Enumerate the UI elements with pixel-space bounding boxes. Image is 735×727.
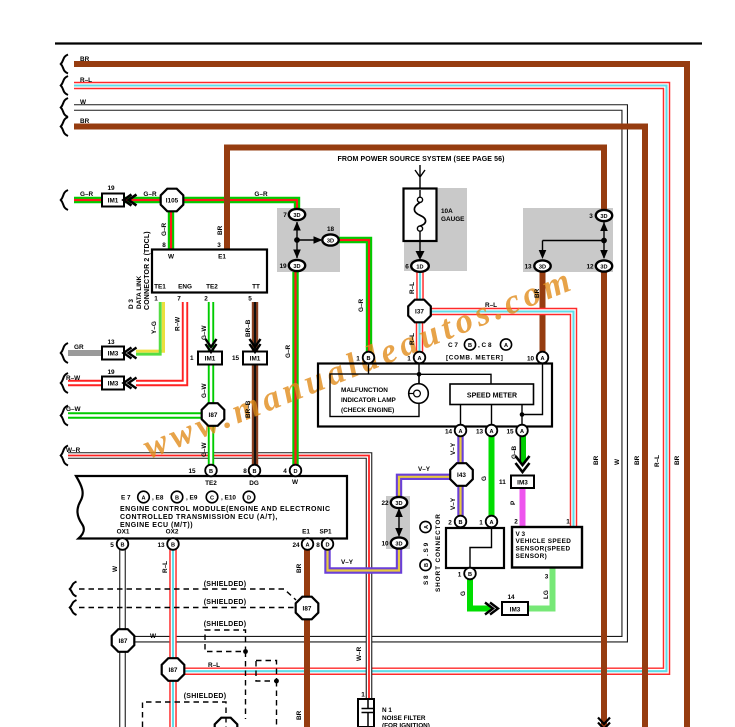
svg-text:(SHIELDED): (SHIELDED) bbox=[204, 621, 247, 628]
svg-text:TE1: TE1 bbox=[154, 284, 166, 291]
wire BR-B TT down to ECU DG bbox=[254, 302, 256, 470]
wire BR 13D3 to comb meter 10A bbox=[540, 271, 546, 353]
svg-text:DATA LINK: DATA LINK bbox=[136, 275, 143, 309]
connector IM3 pin11 (G-B to P) bbox=[499, 456, 534, 488]
svg-text:13: 13 bbox=[107, 339, 115, 346]
svg-text:3D: 3D bbox=[293, 213, 300, 219]
svg-text:ENGINE CONTROL MODULE(ENGINE A: ENGINE CONTROL MODULE(ENGINE AND ELECTRO… bbox=[120, 506, 331, 513]
svg-text:BR: BR bbox=[296, 710, 303, 720]
svg-text:19: 19 bbox=[279, 263, 287, 270]
svg-text:3D: 3D bbox=[327, 238, 334, 244]
svg-text:I87: I87 bbox=[169, 667, 178, 674]
svg-text:10: 10 bbox=[381, 541, 389, 548]
shield drain 2 bbox=[276, 681, 278, 727]
svg-text:BR: BR bbox=[217, 225, 224, 235]
svg-text:C: C bbox=[210, 495, 214, 501]
3D oval pin13 bbox=[524, 260, 550, 271]
octagon I87 BR bbox=[296, 597, 319, 620]
connector IM1 pin1 (G-W) bbox=[190, 339, 222, 365]
wire G-W brace to I87 bbox=[68, 415, 213, 417]
shield junction dots bbox=[243, 649, 248, 654]
svg-text:13: 13 bbox=[157, 542, 165, 549]
wire BR ECU E1 down bbox=[304, 549, 310, 727]
svg-text:BR–B: BR–B bbox=[245, 319, 252, 337]
octagon I105 bbox=[161, 189, 184, 212]
svg-text:(FOR IGNITION): (FOR IGNITION) bbox=[382, 723, 430, 727]
svg-text:V–Y: V–Y bbox=[450, 442, 457, 455]
svg-text:B: B bbox=[458, 520, 462, 526]
arrows in left 3D block bbox=[293, 222, 322, 259]
svg-text:B: B bbox=[424, 563, 430, 567]
wire G-B comb15 to IM3 11 bbox=[521, 436, 526, 463]
comb meter top pins bbox=[356, 352, 548, 364]
svg-text:D: D bbox=[247, 495, 251, 501]
svg-text:10A: 10A bbox=[441, 208, 453, 215]
octagon I87 W bbox=[112, 629, 135, 652]
svg-text:2: 2 bbox=[448, 520, 452, 527]
ECU top pin circles bbox=[205, 465, 301, 477]
wire G short connector 1B to IM3 14 bbox=[470, 578, 491, 609]
svg-text:7: 7 bbox=[177, 296, 181, 303]
svg-text:BR: BR bbox=[80, 56, 90, 63]
svg-text:G: G bbox=[460, 591, 467, 596]
3D oval pin3 bbox=[589, 210, 612, 221]
svg-text:G–R: G–R bbox=[161, 222, 168, 236]
svg-text:8: 8 bbox=[162, 242, 166, 249]
svg-text:ENGINE ECU (M/T)): ENGINE ECU (M/T)) bbox=[120, 522, 193, 529]
3D oval pin10 bbox=[381, 537, 407, 548]
ECU box bbox=[76, 468, 347, 539]
svg-text:1: 1 bbox=[458, 572, 462, 579]
wire W (right loop) bbox=[74, 108, 625, 640]
wire G-R main (brace to I105 to 7 3D) bbox=[74, 200, 297, 208]
svg-text:N 1: N 1 bbox=[382, 707, 392, 714]
shield drain 1 bbox=[245, 652, 247, 720]
svg-text:1: 1 bbox=[154, 296, 158, 303]
svg-text:14: 14 bbox=[507, 594, 515, 601]
svg-text:A: A bbox=[489, 429, 493, 435]
svg-text:B: B bbox=[209, 469, 213, 475]
svg-text:BR: BR bbox=[534, 288, 541, 298]
svg-text:3D: 3D bbox=[600, 214, 607, 220]
svg-text:IM1: IM1 bbox=[250, 356, 261, 363]
svg-text:(SHIELDED): (SHIELDED) bbox=[184, 693, 227, 700]
gray block 22/10 3D bbox=[386, 496, 410, 549]
svg-text:W: W bbox=[292, 479, 299, 486]
svg-text:1: 1 bbox=[566, 519, 570, 526]
svg-text:G–R: G–R bbox=[143, 191, 157, 198]
svg-text:P: P bbox=[510, 500, 517, 505]
wire V-Y comb14 to I43 bbox=[460, 436, 462, 465]
octagon I87 R-L bbox=[162, 658, 185, 681]
wire Y-G TE1 bbox=[136, 302, 163, 351]
svg-text:IM3: IM3 bbox=[510, 607, 521, 614]
svg-text:15: 15 bbox=[506, 429, 514, 436]
arrows in right 3D block bbox=[539, 222, 608, 259]
svg-text:1: 1 bbox=[190, 355, 194, 362]
svg-text:R–W: R–W bbox=[175, 316, 182, 331]
svg-text:GR: GR bbox=[74, 344, 84, 351]
svg-text:E 7: E 7 bbox=[121, 495, 131, 502]
svg-text:CONTROLLED TRANSMISSION ECU (A: CONTROLLED TRANSMISSION ECU (A/T), bbox=[120, 514, 278, 521]
svg-text:3: 3 bbox=[217, 242, 221, 249]
svg-text:5: 5 bbox=[110, 542, 114, 549]
svg-text:A: A bbox=[540, 356, 544, 362]
wire V-Y I43 to 2B bbox=[460, 486, 462, 516]
3D oval pin22 bbox=[381, 497, 407, 508]
wire G comb13 to short connector 1A bbox=[489, 436, 495, 516]
fuse 10A GAUGE bbox=[404, 189, 466, 261]
wire G-W TE2 down through IM1 to I87 to ECU TE2 bbox=[210, 302, 212, 470]
svg-text:G–W: G–W bbox=[201, 382, 208, 398]
wire R-W brace to IM3 bbox=[68, 382, 102, 384]
svg-text:VEHICLE SPEED: VEHICLE SPEED bbox=[516, 538, 572, 545]
svg-text:BR: BR bbox=[674, 455, 681, 465]
svg-text:13: 13 bbox=[476, 429, 484, 436]
svg-text:A: A bbox=[417, 356, 421, 362]
svg-text:BR: BR bbox=[296, 563, 303, 573]
svg-text:SP1: SP1 bbox=[319, 529, 332, 536]
gray connector block right (3/13/12 3D) bbox=[523, 208, 613, 272]
svg-text:3D: 3D bbox=[395, 541, 402, 547]
svg-text:7: 7 bbox=[283, 212, 287, 219]
svg-text:A: A bbox=[305, 542, 309, 548]
connector IM3 pin19 (R-W) bbox=[102, 369, 137, 390]
svg-text:OX1: OX1 bbox=[117, 529, 130, 536]
svg-text:3D: 3D bbox=[539, 264, 546, 270]
svg-text:I87: I87 bbox=[209, 412, 218, 419]
wire R-L fuse 1D to I37 bbox=[419, 272, 421, 301]
svg-text:A: A bbox=[520, 429, 524, 435]
N1 noise filter bbox=[358, 692, 430, 727]
svg-text:2: 2 bbox=[204, 296, 208, 303]
wire R-L ECU OX2 down through I87 to bottom bbox=[172, 549, 174, 727]
octagon bottom edge partial bbox=[215, 718, 238, 727]
speed meter box bbox=[450, 384, 534, 405]
svg-text:SPEED METER: SPEED METER bbox=[467, 393, 517, 400]
svg-text:BR: BR bbox=[634, 455, 641, 465]
svg-text:G–W: G–W bbox=[66, 406, 82, 413]
svg-text:ENG: ENG bbox=[178, 284, 192, 291]
svg-text:MALFUNCTION: MALFUNCTION bbox=[341, 387, 388, 394]
wire BR E1->3D3 bbox=[227, 148, 604, 250]
connector IM3 pin14 (G to LG) bbox=[485, 594, 528, 615]
svg-text:A: A bbox=[141, 495, 145, 501]
svg-text:SHORT CONNECTOR: SHORT CONNECTOR bbox=[435, 513, 442, 592]
svg-text:[COMB. METER]: [COMB. METER] bbox=[446, 355, 504, 362]
wire G-R I105 down to D3 W bbox=[170, 211, 172, 250]
shield dashed line 2 bbox=[79, 607, 294, 609]
svg-text:D: D bbox=[325, 542, 329, 548]
svg-text:22: 22 bbox=[381, 500, 389, 507]
svg-text:A: A bbox=[504, 343, 508, 349]
svg-text:(SHIELDED): (SHIELDED) bbox=[204, 599, 247, 606]
svg-text:I87: I87 bbox=[119, 638, 128, 645]
svg-text:R–W: R–W bbox=[66, 375, 81, 382]
wire LG IM3 14 to V3 pin3 bbox=[528, 568, 553, 609]
svg-text:IM3: IM3 bbox=[517, 480, 528, 487]
svg-text:W: W bbox=[168, 254, 175, 261]
wire W-R brace to noise filter bbox=[68, 456, 369, 699]
svg-text:W: W bbox=[112, 565, 119, 572]
3D oval pin7 bbox=[283, 209, 305, 220]
svg-text:5: 5 bbox=[248, 296, 252, 303]
shield dashed box around W bbox=[205, 630, 246, 652]
svg-text:R–L: R–L bbox=[409, 333, 416, 345]
svg-text:3D: 3D bbox=[293, 264, 300, 270]
svg-text:24: 24 bbox=[292, 542, 300, 549]
svg-text:, C 8: , C 8 bbox=[478, 342, 492, 349]
svg-text:Y–G: Y–G bbox=[151, 321, 158, 334]
svg-text:GAUGE: GAUGE bbox=[441, 216, 465, 223]
svg-text:B: B bbox=[120, 542, 124, 548]
svg-text:BR–B: BR–B bbox=[245, 400, 252, 418]
svg-text:OX2: OX2 bbox=[166, 529, 179, 536]
svg-text:I105: I105 bbox=[166, 198, 179, 205]
D3 rotated label bbox=[128, 231, 151, 310]
combination meter box bbox=[318, 364, 552, 428]
shield dashed box bottom bbox=[143, 702, 227, 727]
comb meter bottom pins bbox=[445, 425, 528, 437]
shield dashed line 1 bbox=[79, 589, 296, 727]
svg-text:R–L: R–L bbox=[162, 561, 169, 573]
wire G-R 19 3D to ECU W 4D bbox=[295, 272, 297, 465]
shield dashed box around R-L bbox=[256, 661, 277, 682]
wire BR top2 bbox=[74, 127, 645, 727]
connector IM1 pin19 (G-R) bbox=[102, 185, 137, 207]
svg-text:8: 8 bbox=[243, 468, 247, 475]
wire G-R 18 3D to comb 1B bbox=[339, 240, 369, 353]
wire BR top1 bbox=[74, 64, 687, 727]
svg-text:B: B bbox=[252, 469, 256, 475]
svg-text:G–W: G–W bbox=[201, 441, 208, 457]
ECU bottom pin circles bbox=[110, 538, 333, 550]
short connector pins bbox=[448, 516, 497, 580]
svg-text:G: G bbox=[481, 476, 488, 481]
svg-text:(CHECK ENGINE): (CHECK ENGINE) bbox=[341, 407, 394, 414]
svg-text:12: 12 bbox=[586, 264, 594, 271]
svg-text:6: 6 bbox=[405, 264, 409, 271]
svg-text:2: 2 bbox=[514, 519, 518, 526]
octagon I43 bbox=[450, 463, 473, 486]
wire V-Y 10 3D to ECU SP1 bbox=[328, 548, 400, 571]
svg-text:1: 1 bbox=[356, 356, 360, 363]
svg-text:V–Y: V–Y bbox=[341, 559, 354, 566]
svg-text:W: W bbox=[80, 99, 87, 106]
svg-text:15: 15 bbox=[232, 355, 240, 362]
svg-text:D: D bbox=[293, 469, 297, 475]
wire V-Y I43 left to 22 3D bbox=[399, 477, 451, 497]
svg-text:B: B bbox=[366, 356, 370, 362]
svg-text:R–L: R–L bbox=[485, 302, 497, 309]
svg-text:G–R: G–R bbox=[80, 191, 94, 198]
svg-text:1D: 1D bbox=[416, 264, 423, 270]
svg-text:B: B bbox=[468, 343, 472, 349]
svg-text:I43: I43 bbox=[457, 472, 466, 479]
wire R-L I37 right to V3 pin1 bbox=[431, 312, 574, 528]
svg-text:SENSOR): SENSOR) bbox=[516, 553, 548, 560]
svg-text:3: 3 bbox=[545, 574, 549, 581]
svg-text:(SHIELDED): (SHIELDED) bbox=[204, 581, 247, 588]
svg-text:LG: LG bbox=[543, 590, 550, 599]
svg-text:S 8: S 8 bbox=[423, 575, 430, 585]
continuation chevron on BR 12D3 bottom bbox=[598, 718, 610, 727]
short connector box bbox=[446, 528, 504, 568]
wire GR gray bbox=[68, 350, 102, 356]
svg-text:13: 13 bbox=[524, 264, 532, 271]
svg-text:1: 1 bbox=[361, 692, 365, 699]
svg-text:G–W: G–W bbox=[201, 324, 208, 340]
svg-text:19: 19 bbox=[107, 369, 115, 376]
svg-text:W–R: W–R bbox=[356, 646, 363, 661]
svg-text:V–Y: V–Y bbox=[418, 466, 431, 473]
svg-text:A: A bbox=[424, 525, 430, 529]
svg-text:TT: TT bbox=[252, 284, 260, 291]
svg-text:A: A bbox=[458, 429, 462, 435]
svg-text:BR: BR bbox=[593, 455, 600, 465]
svg-text:DG: DG bbox=[249, 480, 259, 487]
1D oval pin6 bbox=[405, 260, 429, 272]
short connector rotated label bbox=[420, 513, 442, 592]
MIL inner box bbox=[330, 374, 419, 417]
svg-text:, E8: , E8 bbox=[152, 495, 164, 502]
svg-text:G–R: G–R bbox=[254, 191, 268, 198]
wire W ECU OX1 down through I87 to bottom bbox=[122, 549, 124, 727]
top rule bbox=[55, 42, 702, 44]
svg-text:, E10: , E10 bbox=[221, 495, 236, 502]
svg-text:CONNECTOR 2 (TDCL): CONNECTOR 2 (TDCL) bbox=[144, 231, 151, 310]
svg-text:R–L: R–L bbox=[409, 282, 416, 294]
svg-text:B: B bbox=[468, 572, 472, 578]
3D oval pin12 bbox=[586, 260, 612, 271]
connector IM3 pin13 (GR) bbox=[102, 339, 137, 360]
wire BR 12D3 down bbox=[601, 271, 607, 727]
wire P IM3 to V3 pin2 bbox=[520, 487, 526, 527]
wire R-W chevron to ENG bbox=[136, 302, 185, 383]
svg-text:E1: E1 bbox=[218, 254, 226, 261]
gray block fuse 10A GAUGE bbox=[404, 188, 467, 271]
arrows in 22/10 3D block bbox=[395, 508, 403, 537]
svg-text:15: 15 bbox=[188, 468, 196, 475]
svg-text:1: 1 bbox=[479, 520, 483, 527]
gray connector block left (7/18/19 3D) bbox=[277, 208, 340, 272]
svg-text:3: 3 bbox=[589, 213, 593, 220]
svg-text:10: 10 bbox=[527, 356, 535, 363]
svg-text:D 3: D 3 bbox=[128, 299, 135, 309]
svg-text:W: W bbox=[150, 633, 157, 640]
internal wires bbox=[369, 364, 543, 428]
svg-text:3D: 3D bbox=[600, 264, 607, 270]
svg-text:G–R: G–R bbox=[285, 344, 292, 358]
3D oval pin18 bbox=[322, 226, 338, 246]
arrow below text bbox=[415, 165, 425, 188]
svg-text:3D: 3D bbox=[395, 501, 402, 507]
svg-text:18: 18 bbox=[327, 226, 335, 233]
svg-text:W–R: W–R bbox=[66, 447, 81, 454]
svg-text:BR: BR bbox=[80, 118, 90, 125]
svg-text:SENSOR(SPEED: SENSOR(SPEED bbox=[516, 546, 571, 553]
svg-text:INDICATOR LAMP: INDICATOR LAMP bbox=[341, 397, 397, 404]
svg-text:G–R: G–R bbox=[358, 298, 365, 312]
connector IM1 pin15 (BR-B) bbox=[232, 339, 267, 365]
svg-text:1: 1 bbox=[407, 356, 411, 363]
svg-text:TE2: TE2 bbox=[206, 284, 218, 291]
lamp bbox=[409, 384, 429, 404]
svg-text:NOISE FILTER: NOISE FILTER bbox=[382, 715, 426, 722]
svg-text:V–Y: V–Y bbox=[450, 497, 457, 510]
svg-text:I87: I87 bbox=[303, 606, 312, 613]
svg-text:B: B bbox=[171, 542, 175, 548]
wire R-L top (right loop) bbox=[74, 86, 667, 672]
svg-text:A: A bbox=[489, 520, 493, 526]
svg-text:I37: I37 bbox=[415, 309, 424, 316]
svg-text:IM3: IM3 bbox=[108, 351, 119, 358]
octagon I37 bbox=[408, 300, 431, 323]
svg-text:G–B: G–B bbox=[511, 445, 518, 459]
svg-text:4: 4 bbox=[283, 468, 287, 475]
svg-text:IM1: IM1 bbox=[108, 198, 119, 205]
wire R-L I37 to comb 1A bbox=[419, 323, 421, 353]
svg-text:C 7: C 7 bbox=[448, 342, 458, 349]
svg-text:W: W bbox=[614, 458, 621, 465]
svg-text:IM1: IM1 bbox=[205, 356, 216, 363]
svg-text:R–L: R–L bbox=[80, 77, 92, 84]
octagon I87 G-W bbox=[202, 403, 225, 426]
svg-text:11: 11 bbox=[499, 479, 506, 486]
V3 vehicle speed sensor box bbox=[512, 519, 582, 581]
svg-text:R–L: R–L bbox=[208, 662, 220, 669]
D3 data link connector box bbox=[152, 242, 267, 303]
braces left edge bbox=[61, 55, 77, 616]
svg-text:V 3: V 3 bbox=[516, 531, 526, 538]
svg-text:19: 19 bbox=[107, 185, 115, 192]
svg-text:, E9: , E9 bbox=[186, 495, 198, 502]
svg-text:. S 9: . S 9 bbox=[423, 542, 430, 556]
3D oval pin19 bbox=[279, 260, 305, 271]
svg-text:E1: E1 bbox=[302, 529, 310, 536]
svg-text:FROM POWER SOURCE SYSTEM (SEE: FROM POWER SOURCE SYSTEM (SEE PAGE 56) bbox=[337, 156, 504, 163]
svg-text:8: 8 bbox=[316, 542, 320, 549]
svg-text:IM3: IM3 bbox=[108, 381, 119, 388]
svg-text:B: B bbox=[175, 495, 179, 501]
svg-text:R–L: R–L bbox=[654, 455, 661, 467]
svg-text:14: 14 bbox=[445, 429, 453, 436]
svg-text:TE2: TE2 bbox=[205, 480, 217, 487]
